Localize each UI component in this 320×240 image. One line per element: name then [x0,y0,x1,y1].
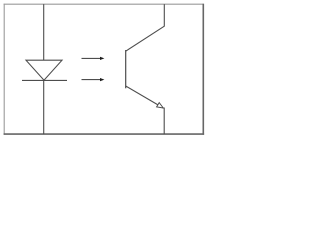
diode D1 (LED) triangle [26,60,62,80]
phototransistor Q1 emitter diagonal [126,86,164,108]
wire: LED anode lead from top frame [43,4,45,60]
light arrow 1 head [100,57,104,60]
wire: LED cathode lead to bottom frame [43,80,45,134]
frame right edge [202,4,204,135]
phototransistor Q1 base bar [125,50,127,88]
wire: emitter lead to bottom frame [163,108,165,135]
phototransistor Q1 collector diagonal [126,26,165,51]
frame bottom edge [4,133,205,135]
phototransistor Q1 emitter arrowhead (open) [157,103,164,108]
light arrow 2 head [100,78,104,81]
light arrow 2 shaft [82,79,101,81]
diode D1 cathode bar [22,79,67,81]
frame top edge [4,3,204,5]
frame left edge [3,4,5,135]
wire: collector lead to top frame [163,4,165,26]
light arrow 1 shaft [82,57,101,59]
